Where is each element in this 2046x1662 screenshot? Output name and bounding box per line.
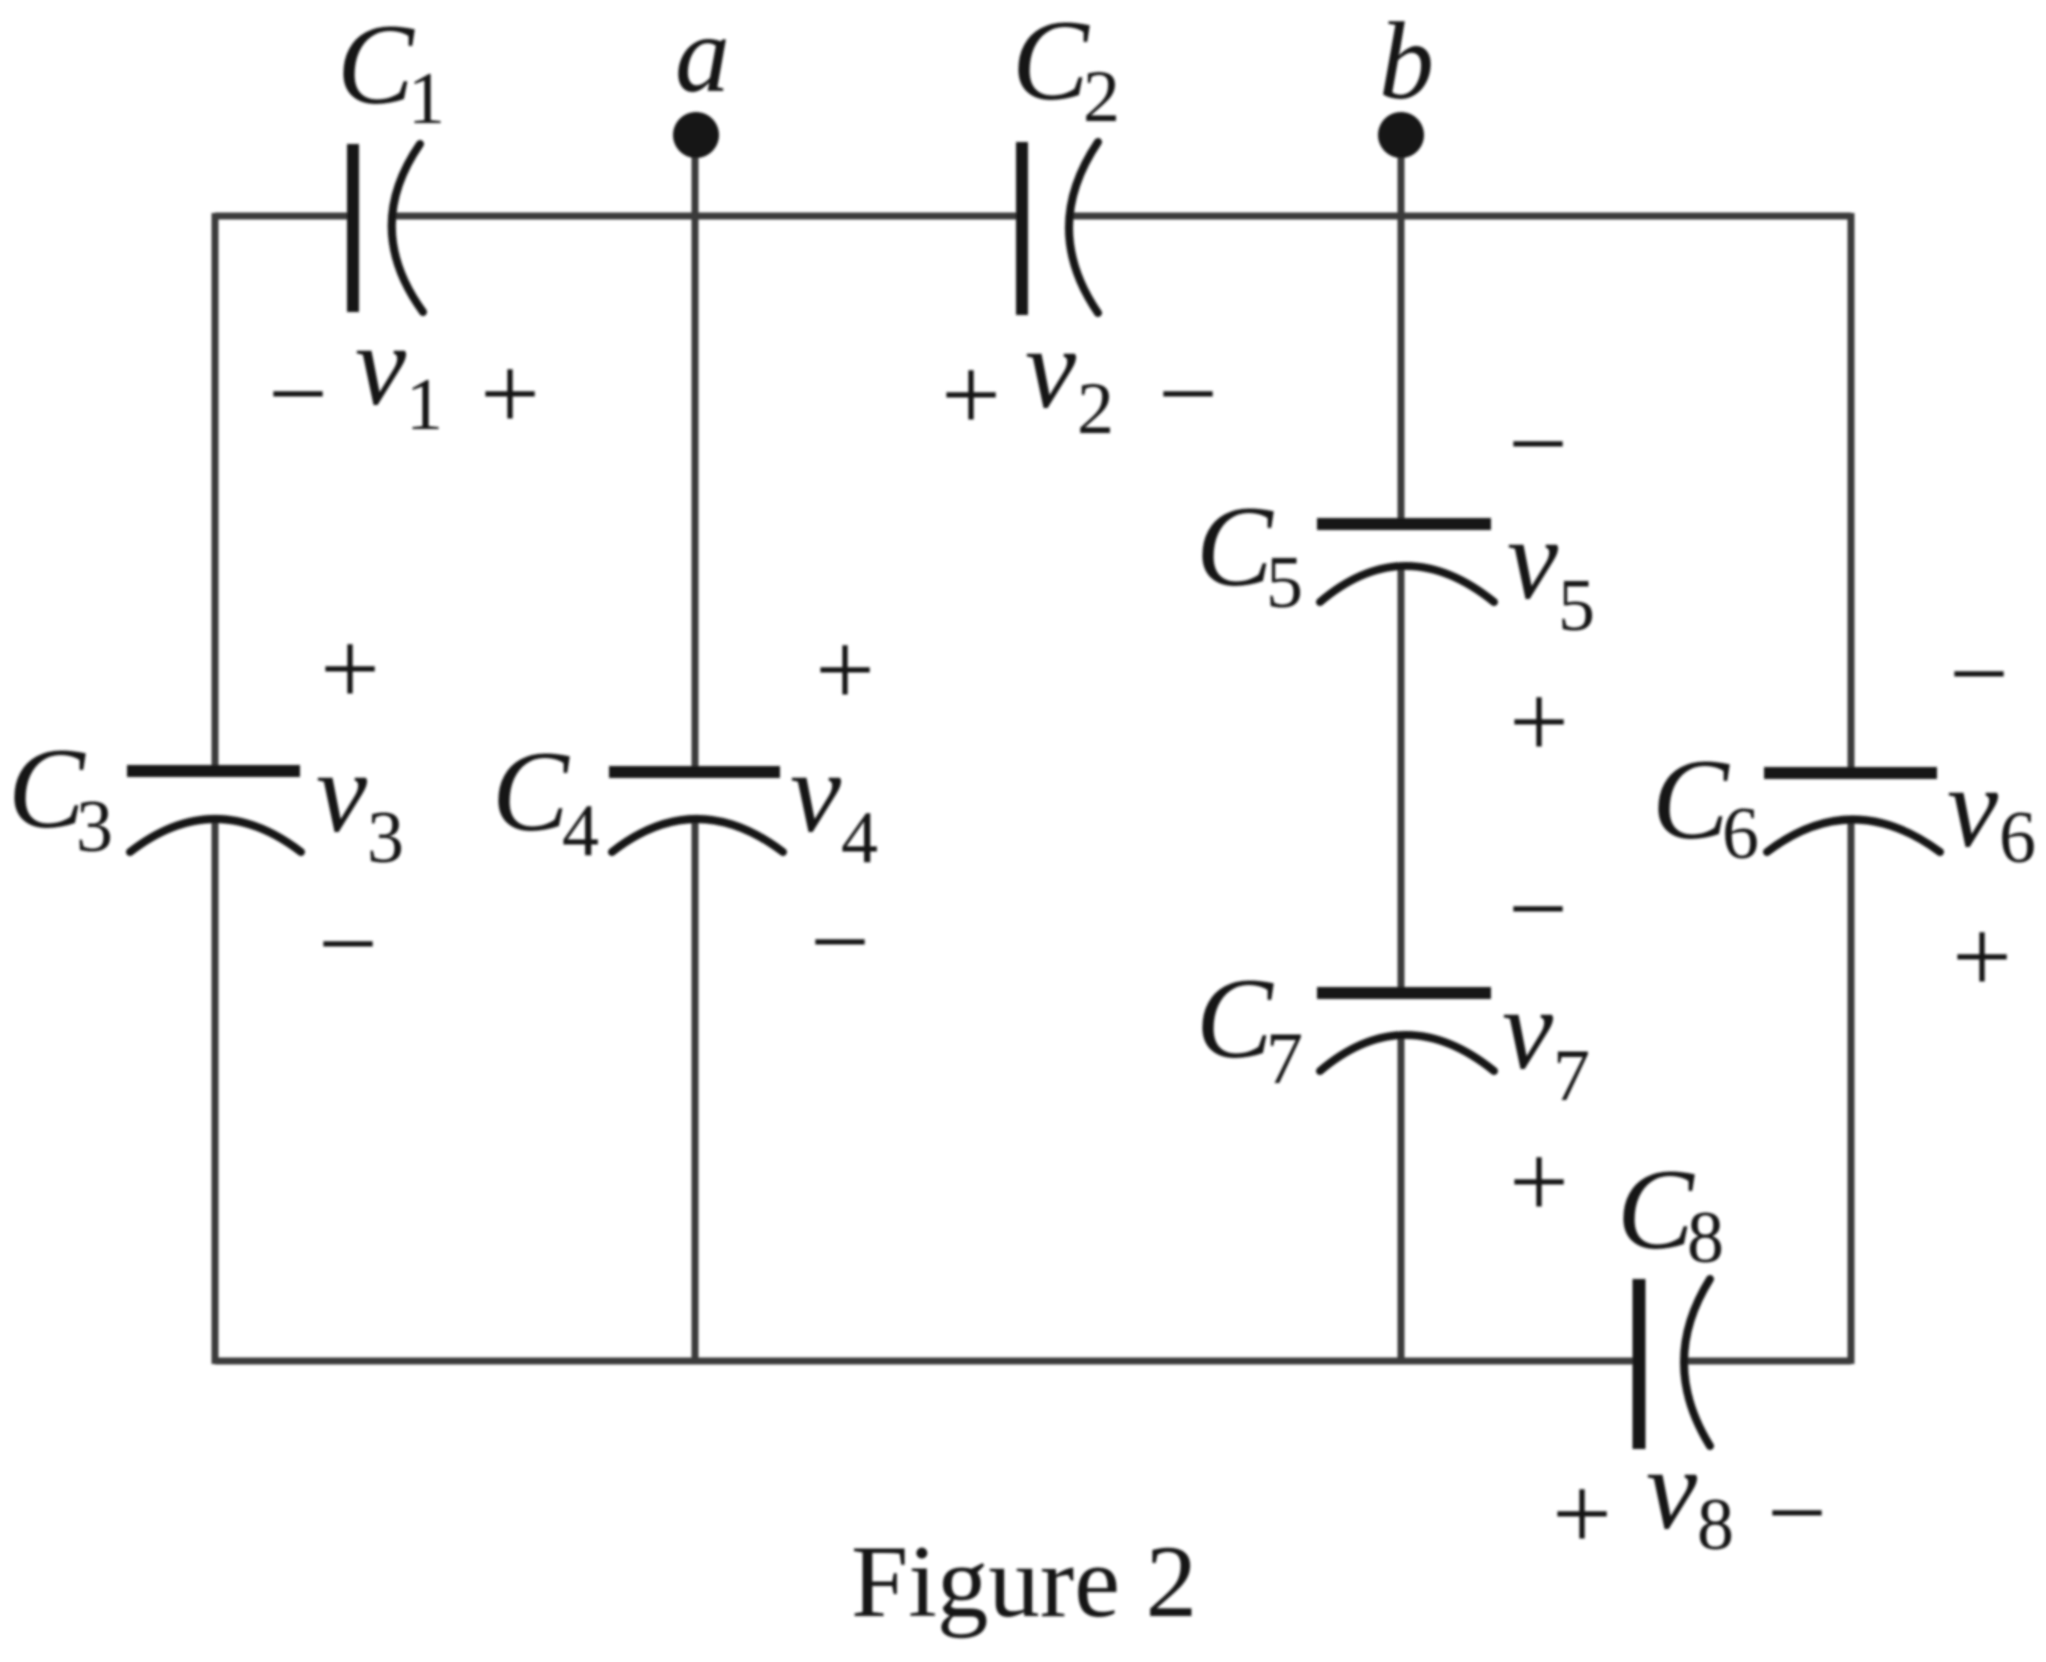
svg-text:C: C [8, 725, 86, 852]
svg-text:7: 7 [1266, 1018, 1303, 1100]
svg-text:+: + [320, 610, 380, 727]
svg-text:+: + [1552, 1455, 1612, 1572]
svg-text:C: C [1652, 736, 1730, 863]
svg-text:v: v [1502, 966, 1554, 1093]
svg-text:5: 5 [1266, 542, 1303, 624]
svg-text:v: v [1507, 496, 1559, 623]
svg-text:C: C [1196, 483, 1274, 610]
svg-text:v: v [1646, 1426, 1698, 1553]
svg-text:v: v [1947, 744, 1999, 871]
svg-text:C: C [1196, 955, 1274, 1082]
svg-text:v: v [355, 302, 407, 429]
svg-text:+: + [1509, 663, 1569, 780]
svg-text:8: 8 [1687, 1197, 1724, 1279]
svg-text:8: 8 [1697, 1484, 1734, 1566]
svg-text:1: 1 [408, 58, 445, 140]
svg-text:−: − [1158, 335, 1218, 452]
svg-text:C: C [1617, 1146, 1695, 1273]
svg-text:C: C [337, 1, 415, 128]
svg-text:−: − [1508, 850, 1568, 967]
svg-text:b: b [1379, 0, 1434, 122]
svg-text:−: − [810, 883, 870, 1000]
svg-text:+: + [941, 336, 1001, 453]
svg-text:3: 3 [367, 797, 404, 879]
svg-text:3: 3 [76, 786, 113, 868]
svg-text:6: 6 [1722, 793, 1759, 875]
svg-text:−: − [1949, 615, 2009, 732]
svg-text:5: 5 [1558, 565, 1595, 647]
svg-text:1: 1 [406, 364, 443, 446]
svg-text:a: a [675, 0, 730, 115]
svg-text:Figure 2: Figure 2 [851, 1525, 1197, 1639]
svg-text:C: C [1012, 0, 1090, 124]
svg-text:2: 2 [1077, 368, 1114, 450]
svg-text:−: − [318, 885, 378, 1002]
svg-text:4: 4 [841, 797, 878, 879]
svg-text:v: v [1025, 305, 1077, 432]
svg-text:4: 4 [562, 790, 599, 872]
svg-text:v: v [790, 729, 842, 856]
svg-text:+: + [480, 335, 540, 452]
svg-text:+: + [1952, 898, 2012, 1015]
svg-text:v: v [316, 729, 368, 856]
svg-text:−: − [1767, 1454, 1827, 1571]
svg-text:2: 2 [1083, 56, 1120, 138]
svg-text:+: + [815, 611, 875, 728]
svg-text:+: + [1509, 1123, 1569, 1240]
svg-text:6: 6 [1999, 797, 2036, 879]
svg-text:−: − [268, 335, 328, 452]
svg-text:C: C [492, 728, 570, 855]
svg-text:7: 7 [1553, 1035, 1590, 1117]
svg-text:−: − [1508, 385, 1568, 502]
